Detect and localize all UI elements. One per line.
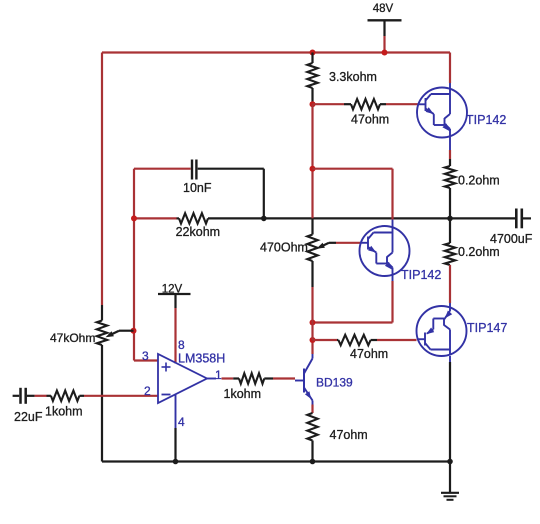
potentiometer 470Ohm xyxy=(260,218,336,261)
svg-text:0.2ohm: 0.2ohm xyxy=(458,174,500,188)
svg-text:47ohm: 47ohm xyxy=(350,347,388,361)
svg-text:47ohm: 47ohm xyxy=(330,428,368,442)
wire: 47ohm to Q1 TIP142 base xyxy=(386,103,418,105)
svg-text:470Ohm: 470Ohm xyxy=(260,241,308,255)
wire: BD139 emitter down to 47ohm xyxy=(312,401,314,414)
op-amp U1 LM358H xyxy=(142,338,225,429)
resistor 3.3kohm xyxy=(307,53,377,105)
node driver collector junction xyxy=(310,166,316,172)
node 10nF/22kohm junction xyxy=(261,216,267,222)
capacitor 10nF (feedback) xyxy=(134,160,264,196)
wire: op-amp output pin 1 xyxy=(207,378,239,380)
wire: left vertical from rail to 47kOhm pot xyxy=(101,53,103,321)
wire: output line left across schematic xyxy=(264,217,450,219)
wire: Q2 emitter down and left xyxy=(313,276,393,323)
wire: 10nF right leg down to output line xyxy=(263,169,265,219)
wire: 1kohm to BD139 base xyxy=(273,377,295,379)
wire: BD139 collector up to junctions xyxy=(312,340,314,359)
svg-text:BD139: BD139 xyxy=(316,376,353,390)
resistor 1kohm (input) xyxy=(35,391,84,419)
wire: bottom ground rail xyxy=(102,460,450,462)
transistor Q2 TIP142 (middle NPN darlington) xyxy=(360,226,442,282)
wire: 1kohm to op-amp pin 2 xyxy=(84,395,158,397)
wire: pot bottom to node xyxy=(311,261,313,323)
svg-text:TIP147: TIP147 xyxy=(467,321,507,335)
potentiometer 47kOhm xyxy=(50,321,134,462)
node on rail at 48V stem xyxy=(382,50,388,56)
wire: x=312 red vertical (3.3k bottom to output line) xyxy=(311,104,313,218)
svg-text:1kohm: 1kohm xyxy=(224,387,262,401)
node below 3.3kohm xyxy=(310,101,316,107)
node 47kOhm wiper junction xyxy=(131,328,137,334)
wire: node to node xyxy=(311,323,313,341)
svg-text:TIP142: TIP142 xyxy=(401,268,441,282)
node pin4/rail xyxy=(173,459,179,465)
svg-text:4: 4 xyxy=(178,415,185,429)
wire: 47ohm to TIP147 base xyxy=(377,339,417,341)
svg-text:3.3kohm: 3.3kohm xyxy=(329,70,377,84)
svg-text:3: 3 xyxy=(142,349,149,363)
svg-text:10nF: 10nF xyxy=(183,181,212,195)
node feedback junction xyxy=(131,215,137,221)
svg-text:47ohm: 47ohm xyxy=(351,113,389,127)
svg-text:8: 8 xyxy=(178,338,185,352)
node 47ohm to TIP147 base xyxy=(310,337,316,343)
wire: Q1 emitter down to 0.2ohm xyxy=(449,137,451,159)
svg-text:TIP142: TIP142 xyxy=(466,113,506,127)
resistor 47ohm (TIP147 base) xyxy=(313,335,389,361)
resistor 0.2ohm (upper) xyxy=(445,159,500,218)
svg-text:1kohm: 1kohm xyxy=(45,405,83,419)
output node xyxy=(447,216,453,222)
svg-text:0.2ohm: 0.2ohm xyxy=(458,245,500,259)
svg-text:1: 1 xyxy=(215,368,222,382)
wire: TIP147 collector down to rail xyxy=(449,356,451,462)
wire: top 48V rail xyxy=(102,51,450,53)
resistor 47ohm (top, to TIP142 base) xyxy=(313,99,390,127)
transistor Q4 BD139 xyxy=(295,359,353,401)
capacitor 22uF (input) xyxy=(13,388,43,424)
svg-text:48V: 48V xyxy=(373,3,394,15)
svg-text:22kohm: 22kohm xyxy=(176,225,220,239)
wire: junction to Q2 collector xyxy=(313,169,393,227)
svg-text:22uF: 22uF xyxy=(14,410,43,424)
node Q2 emitter / pot bottom xyxy=(310,320,316,326)
48V power supply xyxy=(368,3,402,53)
wire: feedback left vertical (x=134) xyxy=(134,169,158,361)
node TIP147/ground rail xyxy=(447,459,453,465)
resistor 22kohm (feedback) xyxy=(134,213,264,239)
node on rail above 3.3kohm xyxy=(310,50,316,56)
resistor 47ohm (BD139 emitter) xyxy=(307,413,367,462)
wire: op-amp pin 4 to ground rail xyxy=(175,395,177,462)
transistor Q1 TIP142 (top NPN darlington) xyxy=(417,88,506,138)
resistor 1kohm (op-amp output) xyxy=(224,373,274,401)
transistor Q3 TIP147 (PNP darlington) xyxy=(417,306,508,356)
node 47ohm/ground rail xyxy=(310,459,316,465)
svg-text:LM358H: LM358H xyxy=(178,352,225,366)
svg-text:47kOhm: 47kOhm xyxy=(50,331,95,345)
svg-text:4700uF: 4700uF xyxy=(490,232,533,246)
12V supply for op-amp xyxy=(158,284,191,364)
capacitor 4700uF (output) xyxy=(450,209,533,247)
ground xyxy=(441,462,459,500)
wire: rail corner down to Q1 TIP142 collector xyxy=(449,53,451,89)
resistor 0.2ohm (lower) xyxy=(445,218,500,306)
wire: pot wiper to Q2 TIP142 base xyxy=(336,242,360,244)
svg-text:2: 2 xyxy=(144,384,151,398)
